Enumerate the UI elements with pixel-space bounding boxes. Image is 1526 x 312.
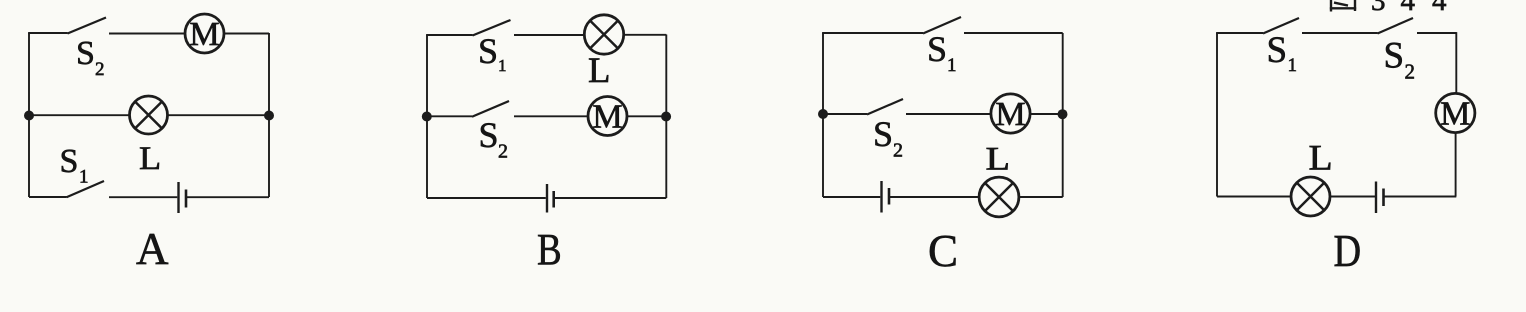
svg-text:D: D	[1334, 227, 1362, 277]
svg-text:C: C	[928, 226, 958, 276]
wire A top-left segment	[28, 32, 67, 34]
svg-text:4: 4	[1432, 0, 1447, 17]
node C right junction	[1058, 109, 1068, 119]
svg-text:M: M	[189, 16, 219, 53]
svg-text:B: B	[537, 225, 562, 274]
svg-text:S: S	[60, 143, 79, 180]
wire B right vertical	[665, 35, 667, 199]
svg-text:3: 3	[1371, 0, 1386, 17]
label S1 (circuit A)	[60, 143, 89, 188]
wire C middle segment	[906, 113, 991, 115]
node C left junction	[818, 109, 828, 119]
switch S1 (circuit A) arm	[67, 181, 105, 197]
svg-text:M: M	[995, 96, 1025, 133]
caption 图 3-4-4 (cropped at top edge)	[1330, 0, 1447, 17]
wire A bottom-left segment	[29, 196, 67, 198]
node B right junction	[661, 112, 671, 122]
wire B left vertical	[426, 35, 428, 198]
battery (circuit A) short plate	[185, 190, 188, 208]
battery (circuit D) short plate	[1382, 189, 1385, 207]
wire B top-middle segment	[514, 34, 584, 36]
svg-text:2: 2	[893, 140, 903, 162]
battery (circuit A) long plate	[177, 182, 179, 213]
lamp L (circuit A)	[130, 96, 168, 134]
svg-text:2: 2	[95, 59, 105, 80]
wire B top-left segment	[426, 34, 472, 36]
wire D bottom-middle segment	[1330, 196, 1375, 198]
wire D right vertical upper	[1455, 32, 1457, 93]
wire A bottom-middle segment	[109, 196, 177, 198]
lamp L (circuit C)	[979, 177, 1019, 217]
wire C top-left segment	[822, 32, 923, 34]
svg-text:1: 1	[1288, 55, 1298, 76]
wire C left vertical	[822, 33, 824, 197]
wire C bottom-left segment	[823, 196, 880, 198]
switch S2 (circuit A) arm	[68, 18, 107, 34]
wire A top-middle segment	[109, 33, 185, 35]
label S1 (circuit B)	[478, 31, 507, 75]
battery (circuit D) long plate	[1375, 182, 1377, 214]
svg-text:2: 2	[498, 141, 508, 163]
wire D top-left segment	[1216, 32, 1263, 34]
wire B bottom-right segment	[555, 197, 667, 199]
svg-text:1: 1	[79, 167, 89, 188]
node B left junction	[422, 112, 432, 122]
battery (circuit C) short plate	[888, 188, 891, 205]
motor M (circuit A)	[185, 14, 224, 53]
wire A middle-left segment	[29, 114, 130, 116]
wire D bottom-right segment	[1385, 196, 1457, 198]
svg-text:A: A	[136, 224, 169, 274]
switch S2 (circuit B) arm	[472, 101, 509, 117]
battery (circuit C) long plate	[880, 181, 882, 213]
wire C right vertical	[1062, 33, 1064, 197]
svg-text:S: S	[873, 114, 893, 154]
wire A left vertical	[28, 33, 30, 197]
battery (circuit B) long plate	[546, 184, 548, 213]
svg-text:S: S	[478, 31, 498, 71]
wire B bottom-left segment	[427, 197, 546, 199]
svg-text:S: S	[1267, 30, 1288, 71]
switch S1 (circuit C) arm	[923, 17, 961, 34]
motor M (circuit C)	[991, 94, 1030, 133]
wire C middle-left segment	[823, 113, 867, 115]
wire A right vertical	[268, 33, 270, 197]
wire B top-right segment	[624, 34, 667, 36]
label S2 (circuit C)	[873, 114, 903, 162]
switch S2 (circuit C) arm	[867, 99, 903, 115]
battery (circuit B) short plate	[552, 191, 555, 208]
svg-text:S: S	[76, 35, 95, 72]
wire B middle-left segment	[427, 115, 472, 117]
wire C bottom-right segment	[1019, 196, 1063, 198]
wire A middle-right segment	[167, 114, 269, 116]
lamp L (circuit D)	[1291, 177, 1330, 216]
svg-text:M: M	[592, 98, 622, 135]
wire D top-middle segment	[1302, 32, 1378, 34]
svg-text:L: L	[139, 140, 161, 177]
wire D left vertical	[1216, 33, 1218, 197]
svg-text:4: 4	[1401, 0, 1416, 17]
wire C middle-right segment	[1030, 113, 1063, 115]
wire D bottom-left segment	[1217, 196, 1291, 198]
svg-text:1: 1	[947, 55, 957, 76]
svg-text:2: 2	[1405, 60, 1416, 84]
svg-text:M: M	[1440, 95, 1470, 132]
switch S1 (circuit B) arm	[473, 20, 511, 36]
svg-text:S: S	[1384, 36, 1405, 77]
wire C bottom-middle segment	[890, 196, 979, 198]
wire D top-right segment	[1417, 32, 1456, 34]
svg-text:1: 1	[498, 56, 507, 75]
label S2 (circuit B)	[479, 115, 509, 163]
wire B middle segment	[514, 115, 588, 117]
lamp L (circuit B)	[584, 15, 623, 54]
node A left junction	[24, 111, 34, 121]
wire A bottom-right segment	[187, 196, 269, 198]
wire A top-right segment	[224, 33, 269, 35]
wire B middle-right segment	[627, 115, 666, 117]
label S1 (circuit D)	[1267, 30, 1298, 76]
svg-text:S: S	[479, 115, 499, 155]
label S2 (circuit A)	[76, 35, 105, 80]
switch S2 (circuit D) arm	[1378, 18, 1414, 34]
switch S1 (circuit D) arm	[1263, 18, 1299, 34]
wire D right vertical lower	[1455, 133, 1457, 197]
svg-text:L: L	[1309, 138, 1333, 178]
label S2 (circuit D)	[1384, 36, 1416, 84]
label S1 (circuit C)	[927, 29, 957, 76]
node A right junction	[264, 111, 274, 121]
svg-text:L: L	[588, 50, 610, 90]
svg-text:L: L	[986, 140, 1011, 177]
svg-text:S: S	[927, 29, 947, 69]
wire C top-right segment	[964, 32, 1063, 34]
motor M (circuit D)	[1436, 93, 1475, 132]
motor M (circuit B)	[588, 97, 627, 136]
